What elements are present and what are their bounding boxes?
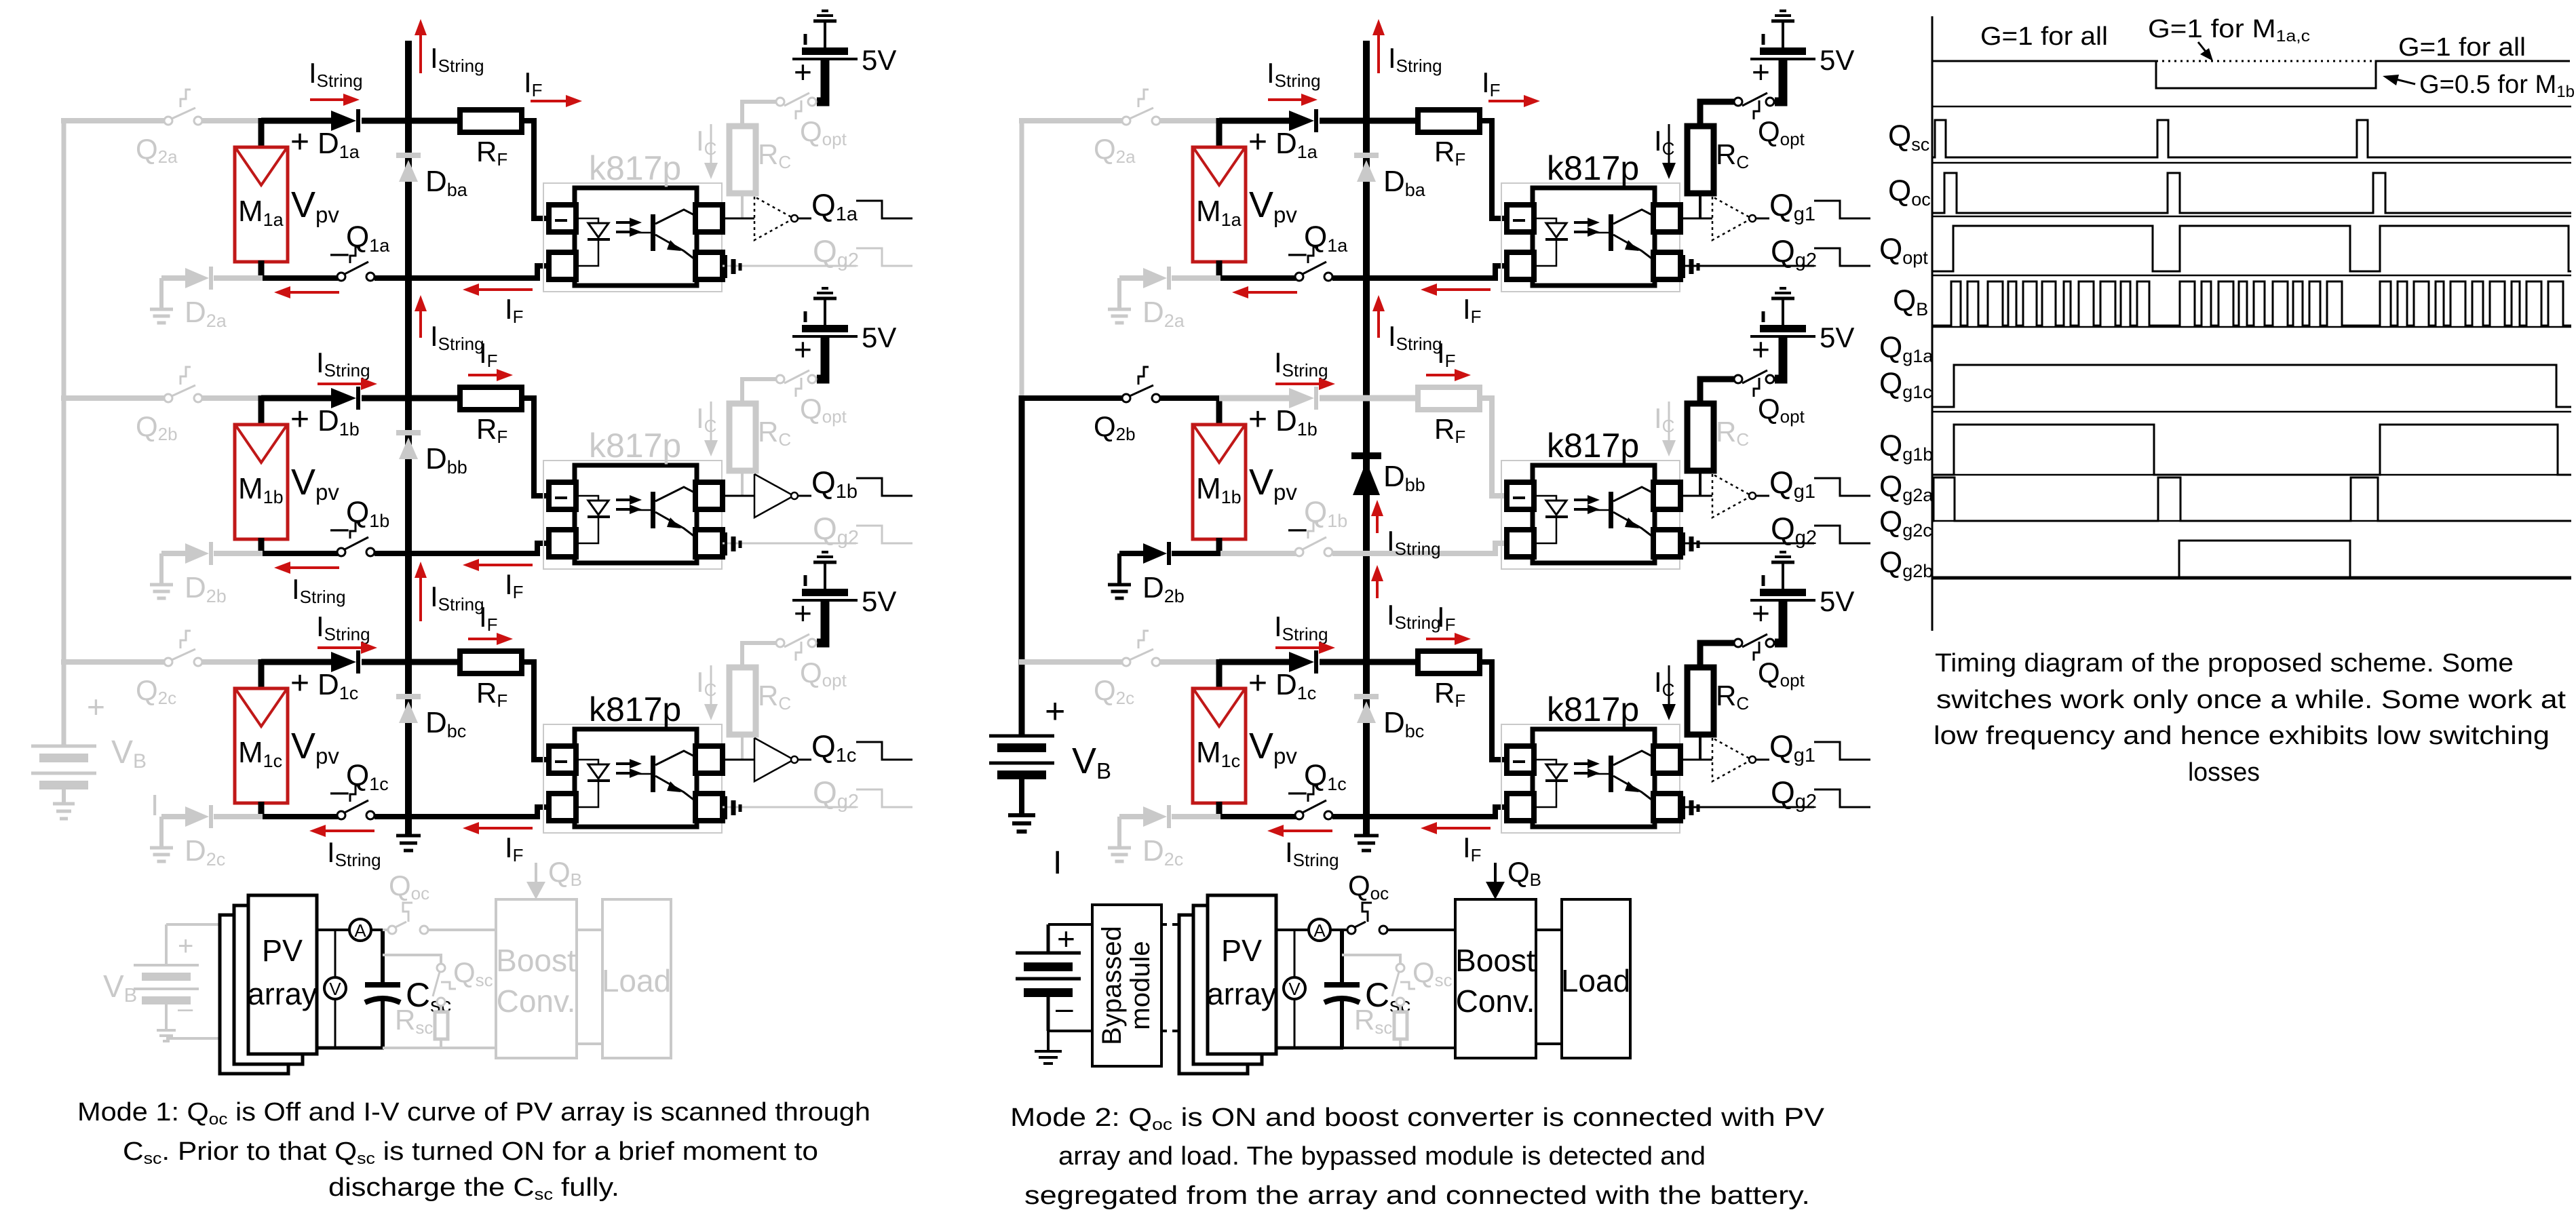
Load block [602, 899, 671, 1058]
wire: Rc to inverter node (cell b) [741, 471, 744, 496]
switch Qopt (cell c) [1734, 634, 1774, 661]
label Q1a output (cell a) [811, 187, 858, 225]
label Dba [1383, 165, 1426, 200]
switch Q1c [337, 785, 374, 819]
LED light arrows (cell b) [1574, 495, 1600, 514]
wire: RF to optocoupler pin 1 (cell a) [522, 121, 549, 218]
wire: module M1b top lead [258, 395, 265, 427]
optocoupler k817p outer frame (cell a) [543, 183, 722, 292]
current label IF above top wire (cell a) [1482, 66, 1501, 100]
label Vpv (cell c) [1249, 726, 1297, 768]
label Q1c [1304, 759, 1347, 794]
label Q1b output (cell b) [811, 465, 858, 503]
label VB (left circuit) [111, 735, 147, 773]
wire: left battery bus lower (active) [1019, 395, 1025, 736]
current label IF below bottom wire (cell a) [505, 293, 524, 327]
label + battery terminal (cell c) [1752, 596, 1770, 631]
optocoupler pin 2 (cathode, cell c) [549, 794, 576, 821]
current arrow IF below bottom wire (cell c) [1421, 822, 1491, 834]
wire: feed from left bus to switch Q2c [1019, 659, 1123, 665]
wire: module bottom to switch Q1c [1219, 814, 1296, 819]
label Vpv (cell a) [1249, 184, 1297, 227]
LED light arrows (cell c) [616, 759, 642, 778]
current arrow IString on bus (top of bus above cell a) [1372, 19, 1385, 73]
label Dbb [1383, 460, 1425, 495]
label D2a [1142, 296, 1185, 331]
wire: feed from left bus to switch Q2c [61, 659, 165, 665]
current arrow IF above top wire (cell b) [468, 369, 513, 381]
label + battery terminal (cell a) [1752, 54, 1770, 90]
ground below D2a [1108, 309, 1131, 323]
resistor Rc (cell a) [1687, 126, 1714, 193]
wire: main string bus (vertical) [405, 41, 412, 837]
label + polarity (cell a) [1248, 124, 1267, 160]
label Qopt (cell b) [1758, 393, 1805, 427]
label Qg1b (timing) [1879, 429, 1933, 465]
optocoupler pin 1 (anode, cell c) [549, 746, 576, 773]
switch Qoc [1347, 903, 1387, 934]
current label IString above top wire (cell a) [309, 57, 363, 91]
current arrow IString on bus (below cell b) [415, 562, 427, 621]
label Csc [1365, 976, 1410, 1017]
ground below D2a [150, 309, 173, 323]
wire: feed from left bus to switch Q2b [61, 395, 165, 401]
current arrow IString above top wire (cell b) [1275, 378, 1335, 390]
LED light arrows (cell a) [616, 218, 642, 237]
label Q1a [1304, 220, 1348, 256]
svg-text:k817p: k817p [589, 427, 681, 465]
current label IF below bottom wire (cell a) [1463, 293, 1482, 327]
diode D1c [331, 650, 358, 674]
svg-text:array: array [1207, 977, 1277, 1011]
switch Q1a [1295, 247, 1332, 281]
wire: feed from left bus to switch Q2a [1019, 118, 1123, 123]
inverter buffer (cell a) [754, 197, 811, 240]
label D1b [1275, 404, 1318, 440]
wire: module bottom to switch Q1b [261, 551, 338, 556]
label Qg1 output (cell b) [1769, 465, 1815, 503]
waveform Qoc [1932, 173, 2571, 213]
wire: optocoupler pin 3 to Qg2 (cell b) [723, 543, 856, 545]
label + polarity (cell c) [1248, 665, 1267, 701]
current arrow IString above top wire (cell a) [310, 94, 360, 106]
svg-text:array and load. The bypassed m: array and load. The bypassed module is d… [1058, 1142, 1706, 1171]
timing diagram axis [1931, 16, 1934, 631]
phototransistor inside optocoupler (cell b) [1594, 487, 1653, 537]
optocoupler pin 3 (emitter, cell a) [695, 252, 723, 279]
current arrow IF above top wire (cell a) [1488, 95, 1540, 107]
label D2a [185, 296, 227, 331]
label Vpv (cell b) [291, 462, 339, 505]
wire: switch Q2c to module M1c [1159, 659, 1220, 665]
label 5V (cell b) [862, 321, 896, 353]
Boost converter block [496, 899, 577, 1058]
label Rc (cell a) [1716, 138, 1749, 172]
label + battery terminal (cell b) [794, 332, 812, 367]
svg-text:–: – [1056, 990, 1073, 1026]
label RF (cell a) [1434, 136, 1465, 170]
ground below battery VB (left circuit) [53, 804, 75, 819]
label + polarity (cell c) [290, 665, 309, 701]
wire: D1c to bus node [1320, 659, 1366, 665]
dashed wire: Bypassed module to PV array (bottom) [1161, 1030, 1183, 1032]
label Qopt (cell a) [1758, 115, 1805, 149]
label - polarity (cell b) [330, 510, 349, 546]
inverter buffer (cell b) [754, 474, 811, 518]
optocoupler pin 1 (anode, cell b) [1507, 482, 1534, 509]
svg-text:switches work only once a whil: switches work only once a while. Some wo… [1936, 686, 2567, 714]
timing row separator 2 [1932, 162, 2571, 164]
caption Mode 2 line 1 [1010, 1104, 1825, 1134]
wire: left battery bus upper (inactive) [1020, 118, 1024, 398]
svg-text:+: + [1752, 596, 1770, 631]
label Qsc [453, 956, 493, 990]
wire: D1b to bus node [362, 395, 408, 402]
wire: bus node to resistor RF (cell a) [408, 118, 461, 124]
PV array stack back sheets [220, 905, 303, 1074]
switch Q2b [164, 367, 202, 402]
emitter bias mark (cell b) [726, 532, 740, 555]
wire: switch Q2a to module M1a [201, 118, 263, 123]
battery VB of Mode-1 block diagram [134, 924, 199, 1029]
label Ic (cell c) [1654, 666, 1674, 700]
wire: RF to optocoupler pin 1 (cell a) [1480, 121, 1507, 218]
current label IF above top wire (cell c) [479, 601, 498, 635]
waveform Qsc [1932, 120, 2571, 157]
label k817p (cell b) [589, 427, 681, 465]
switch Q1a [337, 247, 374, 281]
wire: module M1b top lead [1216, 395, 1223, 427]
ground below VB (Mode-1 block diagram) [157, 1030, 176, 1041]
waveform Qg2a/Qg2c [1932, 477, 2571, 521]
label Qoc [389, 870, 429, 903]
label 5V (cell a) [862, 44, 896, 76]
wire: RF to optocoupler pin 1 (cell b) [1480, 398, 1507, 496]
current arrow IString on bus (below cell a) [415, 295, 427, 338]
wire: module M1a bottom lead [1216, 260, 1223, 281]
phototransistor inside optocoupler (cell b) [636, 487, 695, 537]
emitter bias mark (cell b) [1684, 532, 1698, 555]
label G=0.5 for M1b [2419, 71, 2575, 101]
ground below D2c [150, 848, 173, 861]
label + polarity (cell a) [290, 124, 309, 160]
wire: Csc node to Qsc switch [383, 955, 441, 964]
wire: top wire module to D1c [1219, 659, 1290, 665]
phototransistor inside optocoupler (cell c) [1594, 751, 1653, 801]
label Boost Conv. [496, 943, 576, 1019]
inverter buffer (cell c) [1712, 738, 1769, 781]
optocoupler pin 1 (anode, cell a) [549, 205, 576, 232]
label Vpv (cell a) [291, 184, 339, 227]
svg-text:5V: 5V [862, 44, 896, 76]
resistor Rc (cell b) [729, 404, 756, 471]
timing row separator 4 [1932, 275, 2571, 277]
wire: bus node to resistor RF (cell b) [408, 395, 461, 402]
svg-text:5V: 5V [1820, 44, 1854, 76]
wire: module bottom to diode D2b [1172, 551, 1220, 556]
wire: optocoupler pin 4 to inverter (cell a) [723, 218, 754, 220]
svg-text:G=1 for all: G=1 for all [2398, 33, 2526, 62]
current label IF below bottom wire (cell c) [1463, 832, 1482, 865]
current label IString below bottom wire (cell c) [327, 836, 381, 870]
control arrow QB into Boost [1486, 863, 1505, 899]
label M1a [1196, 195, 1242, 230]
label D1c [318, 668, 358, 703]
optocoupler pin 4 (collector, cell b) [1653, 482, 1680, 509]
label D1a [318, 127, 360, 162]
gate pulse glyph Q1b (cell b) [856, 478, 912, 496]
label Qg1c (timing) [1879, 367, 1932, 402]
label Rc (cell c) [758, 680, 791, 714]
optocoupler k817p outer frame (cell c) [543, 724, 722, 833]
label QB [548, 856, 582, 890]
label PV array [1207, 933, 1277, 1011]
label Dbc [425, 706, 466, 741]
label - polarity (cell c) [1288, 773, 1307, 809]
label QB [1507, 856, 1541, 890]
optocoupler k817p outer frame (cell a) [1501, 183, 1680, 292]
capacitor Csc [365, 929, 400, 1048]
emitter bias mark (cell c) [726, 796, 740, 819]
label Bypassed module (rotated) [1097, 926, 1155, 1045]
wire: Boost to Load bottom [1536, 1042, 1562, 1045]
label Qoc (timing) [1888, 174, 1931, 210]
label M1a [238, 195, 284, 230]
caption timing line 1 [1935, 649, 2514, 678]
resistor Rc (cell b) [1687, 404, 1714, 471]
bypass diode Dbb (active) [1351, 456, 1381, 495]
resistor RF (cell c) [460, 651, 522, 674]
bypass diode Dbc [396, 697, 421, 723]
svg-text:5V: 5V [862, 585, 896, 617]
battery 5V (cell a) [1750, 11, 1815, 102]
optocoupler pin 4 (collector, cell c) [1653, 746, 1680, 773]
ground below Mode-2 battery [1035, 1031, 1062, 1063]
wire: PV array to ammeter [317, 929, 350, 931]
label k817p (cell b) [1547, 427, 1639, 465]
label VB (Mode-1 block diagram) [103, 969, 137, 1007]
wire: module bottom to diode D2c [214, 814, 263, 819]
switch Qsc [433, 964, 456, 1006]
label + (Mode-2 block diagram battery) [1057, 921, 1075, 956]
caption timing line 2 [1936, 686, 2567, 714]
optocoupler pin 3 (emitter, cell a) [1653, 252, 1680, 279]
wire: module M1a bottom lead [258, 260, 265, 281]
label + polarity (cell b) [290, 402, 309, 437]
LED inside optocoupler (cell c) [576, 760, 610, 807]
label Qg2 (cell b) [1771, 511, 1817, 549]
wire: module M1b bottom lead [258, 538, 265, 556]
svg-text:+: + [290, 402, 309, 437]
label + of battery VB (left circuit) [87, 689, 105, 724]
label Ic (cell b) [1654, 402, 1674, 436]
svg-text:k817p: k817p [1547, 690, 1639, 728]
wire: optocoupler pin 4 to inverter (cell c) [723, 759, 754, 761]
label - polarity (cell a) [1288, 235, 1307, 271]
svg-text:Load: Load [1561, 963, 1630, 998]
label Dbb [425, 442, 467, 477]
current label IF above top wire (cell c) [1437, 601, 1456, 635]
current arrow IF below bottom wire (cell a) [463, 284, 533, 296]
wire: feed from left bus to switch Q2b [1019, 395, 1123, 401]
svg-text:I: I [151, 789, 159, 822]
PV array block [1208, 895, 1276, 1054]
wire: Qopt switch to resistor Rc (cell a) [1700, 102, 1735, 128]
current label IString above top wire (cell b) [316, 347, 370, 380]
battery 5V (cell b) [1750, 288, 1815, 379]
waveform Qopt [1932, 226, 2571, 271]
switch Q1b [1295, 522, 1332, 556]
wire: Rc to inverter node (cell c) [741, 735, 744, 760]
wire: switch Q1c to optocoupler pin 2 (cell c) [1332, 807, 1507, 817]
svg-text:+: + [794, 332, 812, 367]
wire: feed from left bus to switch Q2a [61, 118, 165, 123]
battery 5V (cell c) [792, 552, 858, 643]
diode D1b [331, 387, 358, 410]
label Qopt (cell a) [800, 115, 847, 149]
switch Q1b [337, 522, 374, 556]
optocoupler pin 4 (collector, cell a) [1653, 205, 1680, 232]
ground below D2b [150, 585, 173, 598]
wire: Boost to Load top [1536, 929, 1562, 931]
label 5V (cell c) [1820, 585, 1854, 617]
switch Q2a [1122, 90, 1160, 125]
label RF (cell a) [476, 136, 507, 170]
optocoupler pin 1 (anode, cell b) [549, 482, 576, 509]
wire: ammeter to Csc node [370, 929, 384, 931]
caption Mode 1 line 2 [123, 1137, 818, 1168]
timing row separator 8 [1932, 520, 2571, 522]
label D2c [185, 834, 225, 870]
wire: optocoupler pin 3 to Qg2 (cell b) [1680, 543, 1814, 545]
emitter bias mark (cell c) [1684, 796, 1698, 819]
wire: module M1c top lead [258, 659, 265, 690]
current label IString below bypass cell [1387, 599, 1441, 633]
battery VB (middle circuit, active) [989, 736, 1054, 814]
timing bottom axis (thick) [1932, 577, 2571, 580]
label Qopt (cell b) [800, 393, 847, 427]
label Q2b [1094, 410, 1136, 444]
control arrow QB into Boost [526, 863, 545, 899]
bypass diode Dbb [396, 433, 421, 459]
ground below D2b [1108, 585, 1131, 598]
current arrow Ic (cell b) [1662, 402, 1676, 456]
svg-text:+: + [1248, 402, 1267, 437]
current label IF below bottom wire (cell c) [505, 832, 524, 865]
optocoupler pin 4 (collector, cell b) [695, 482, 723, 509]
wire: battery top to Bypassed module [1048, 923, 1092, 926]
wire: optocoupler pin 3 to Qg2 (cell c) [723, 806, 856, 808]
svg-text:+: + [1057, 921, 1075, 956]
wire: battery to PV array top (Mode-1) [166, 923, 224, 926]
current arrow IF above top wire (cell c) [468, 633, 513, 645]
label k817p (cell c) [1547, 690, 1639, 728]
switch Q1c [1295, 785, 1332, 819]
wire: Qoc switch to Boost converter [1387, 929, 1455, 931]
caption Mode 1 line 3 [328, 1173, 619, 1204]
LED light arrows (cell b) [616, 495, 642, 514]
ground below battery VB (middle circuit) [1008, 815, 1035, 832]
label Q1a [346, 220, 390, 256]
label Qopt (cell c) [800, 657, 847, 690]
label Qg2 (cell c) [813, 775, 859, 813]
wire: switch Q1c to optocoupler pin 2 (cell c) [374, 807, 549, 817]
annotation arrow to G trace [2198, 42, 2213, 61]
switch Q2c [1122, 631, 1160, 666]
timing row separator 1 [1932, 106, 2571, 108]
svg-text:array: array [248, 977, 318, 1011]
svg-text:5V: 5V [1820, 585, 1854, 617]
wire: optocoupler pin 3 to Qg2 (cell c) [1680, 806, 1814, 808]
current label IString above top wire (cell c) [316, 610, 370, 644]
label - polarity (cell a) [330, 235, 349, 271]
label Qg2 (cell b) [813, 511, 859, 549]
optocoupler pin 4 (collector, cell a) [695, 205, 723, 232]
svg-text:+: + [87, 689, 105, 724]
svg-text:+: + [794, 54, 812, 90]
optocoupler pin 3 (emitter, cell b) [695, 530, 723, 557]
waveform Qg1a/Qg1c [1932, 365, 2571, 407]
dashed wire: Bypassed module to PV array (top) [1161, 923, 1195, 926]
label M1c [1196, 736, 1240, 771]
resistor Rc (cell c) [1687, 667, 1714, 735]
battery 5V (cell a) [792, 11, 858, 102]
label D2c [1142, 834, 1183, 870]
label I of battery VB (left circuit) [151, 789, 159, 822]
wire: module M1c top lead [1216, 659, 1223, 690]
optocoupler Ub k817p body [1533, 465, 1655, 563]
diode D1b [1289, 387, 1316, 410]
wire: switch Q2c to module M1c [201, 659, 263, 665]
label Rsc [1354, 1004, 1392, 1038]
label + battery terminal (cell b) [1752, 332, 1770, 367]
timing row separator 6 [1932, 411, 2571, 413]
wire: battery to PV array bottom (Mode-1) [166, 1037, 224, 1040]
current arrow IString below bottom wire (cell a) [1232, 286, 1297, 298]
label Q1c [346, 759, 389, 794]
current label IF above top wire (cell b) [1437, 337, 1456, 371]
svg-text:Conv.: Conv. [497, 983, 576, 1019]
gate pulse glyph Q1a (cell a) [856, 201, 912, 218]
PV module M1a [1193, 147, 1246, 262]
optocoupler Uc k817p body [1533, 729, 1655, 827]
svg-text:+: + [290, 665, 309, 701]
resistor RF (cell a) [1418, 110, 1480, 132]
label Q2a [136, 133, 178, 167]
label Q2c [136, 674, 176, 708]
wire: Qopt switch to resistor Rc (cell c) [1700, 643, 1735, 669]
LED inside optocoupler (cell b) [1534, 496, 1568, 543]
label I of battery VB (middle circuit) [1053, 845, 1062, 881]
label + (Mode-1 block diagram battery) [178, 931, 193, 961]
Bypassed module block [1092, 905, 1161, 1066]
LED inside optocoupler (cell a) [1534, 218, 1568, 266]
PV module M1c [1193, 688, 1246, 803]
svg-text:+: + [1752, 332, 1770, 367]
wire: D1a to bus node [362, 118, 408, 124]
wire: Rc to inverter node (cell a) [1699, 193, 1702, 218]
wire: switch Q1b to optocoupler pin 2 (cell b) [374, 543, 549, 553]
svg-text:V: V [329, 979, 341, 999]
wire: RF to optocoupler pin 1 (cell b) [522, 398, 549, 496]
label Q2c [1094, 674, 1134, 708]
current arrow IF above top wire (cell b) [1426, 369, 1471, 381]
battery VB (left circuit, inactive) [31, 746, 96, 802]
svg-text:5V: 5V [862, 321, 896, 353]
svg-text:–: – [178, 994, 193, 1023]
label QB (timing) [1893, 284, 1928, 319]
label Qg1a (timing) [1879, 331, 1934, 366]
